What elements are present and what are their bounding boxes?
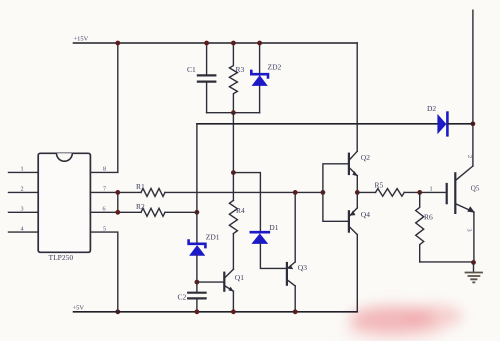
wire C1/R3/ZD2 bottom bus (207, 112, 260, 114)
wire Q2 collector drop from rail (356, 43, 358, 151)
wire pin 8 to +15V rail (90, 43, 117, 172)
wire Q3 emitter up to drive line (294, 192, 296, 262)
wire D1 to Q3 base (260, 244, 286, 269)
svg-text:+15V: +15V (74, 36, 89, 43)
diode D1 (251, 232, 269, 244)
svg-text:3: 3 (21, 206, 24, 213)
svg-text:C2: C2 (178, 293, 187, 302)
svg-text:+5V: +5V (73, 305, 85, 312)
svg-text:R1: R1 (136, 182, 145, 191)
pin 2 lead (9, 191, 39, 193)
wire pin 7 lead (90, 191, 141, 193)
wire Q2/Q4 base link (323, 164, 349, 222)
svg-text:C1: C1 (187, 65, 196, 74)
svg-text:R3: R3 (236, 65, 245, 74)
node drive line / base link (321, 190, 326, 195)
transistor Q2 (349, 151, 358, 176)
resistor R1 (141, 188, 165, 196)
wire R3 column down to R4 (232, 113, 234, 201)
capacitor C2 (188, 293, 205, 312)
wire R2 to ZD1 column (165, 211, 197, 213)
node R2 / ZD1 column (195, 210, 200, 215)
svg-text:R2: R2 (136, 202, 145, 211)
node bus / R3 column (231, 110, 236, 115)
wire Q2 emitter down (356, 176, 358, 193)
svg-text:R4: R4 (236, 206, 245, 215)
wire Q4 emitter up (356, 192, 358, 208)
svg-text:8: 8 (103, 166, 106, 173)
svg-text:Q5: Q5 (471, 185, 480, 193)
zener ZD2 (251, 43, 268, 113)
pin 1 lead (9, 171, 39, 173)
wire pin 6 lead (90, 211, 141, 213)
resistor R2 (141, 208, 165, 216)
resistor R5 (376, 189, 405, 197)
svg-text:D2: D2 (427, 104, 436, 113)
wire pin 5 to +5V bus (90, 232, 117, 312)
node R6 tap (417, 190, 422, 195)
wire Q5 emitter down (473, 212, 475, 262)
wire Q3 collector to bus (294, 286, 296, 312)
wire pin7-pin6 link (117, 192, 119, 212)
transistor Q3 (287, 262, 295, 286)
node R4 top / D1 branch (231, 170, 236, 175)
node C2 / bus (195, 309, 200, 314)
node D2 / riser (471, 121, 476, 126)
svg-text:R6: R6 (424, 213, 433, 222)
node R3 / rail (231, 41, 236, 46)
svg-text:D1: D1 (269, 223, 278, 232)
svg-text:5: 5 (103, 226, 106, 233)
svg-text:Q1: Q1 (235, 273, 244, 282)
wire D2 cathode to riser (447, 123, 473, 125)
svg-text:6: 6 (103, 206, 106, 213)
svg-text:ZD2: ZD2 (268, 63, 282, 72)
wire output to R5 (357, 191, 375, 193)
pin 4 lead (9, 231, 39, 233)
diode D2 (437, 113, 447, 136)
node pin6 link (115, 210, 120, 215)
wire R5 to IGBT gate (404, 191, 446, 193)
svg-text:Q3: Q3 (298, 263, 307, 272)
ground (465, 262, 483, 282)
resistor R3 (229, 43, 237, 113)
IC U1 TLP250 body (38, 153, 90, 252)
zener ZD1 (189, 241, 206, 256)
transistor Q4 (349, 208, 357, 235)
node C1 / rail (204, 41, 209, 46)
wire Q1 emitter to bus (232, 291, 234, 312)
svg-text:2: 2 (21, 186, 24, 193)
resistor R4 (229, 200, 237, 233)
wire +15V rail (74, 42, 358, 44)
wire R4 to Q1 collector (232, 234, 234, 269)
node emitter / R6 return (471, 260, 476, 265)
wire collector riser (472, 10, 474, 166)
svg-text:3: 3 (466, 229, 473, 232)
wire +5V bottom bus (74, 311, 358, 313)
wire Q1 base (197, 281, 224, 283)
svg-text:4: 4 (21, 226, 24, 233)
node Q3 / bus (293, 309, 298, 314)
svg-text:1: 1 (430, 186, 433, 193)
IGBT Q5 (447, 166, 475, 213)
wire R6 bottom to emitter node (420, 261, 474, 263)
pin 3 lead (9, 211, 39, 213)
svg-text:TLP250: TLP250 (49, 253, 74, 262)
svg-text:2: 2 (466, 155, 473, 158)
wire ZD1 to C2 (196, 256, 198, 293)
svg-text:7: 7 (103, 186, 106, 193)
node pin5 / bus (115, 309, 120, 314)
wire Q4 collector drop to bus (356, 235, 358, 312)
wire gate-drive line to D2 (197, 123, 437, 125)
node rail / pin8 riser (115, 41, 120, 46)
node ZD1 / Q1 base / C2 (195, 280, 200, 285)
wire R1 output to driver bases (165, 191, 323, 193)
node push-pull output (355, 190, 360, 195)
transistor Q1 (224, 269, 234, 291)
svg-text:ZD1: ZD1 (206, 233, 220, 242)
svg-text:Q2: Q2 (361, 153, 370, 162)
node Q3 / drive line (293, 190, 298, 195)
watermark pink blob (345, 305, 463, 339)
wire D1 branch (233, 173, 260, 232)
capacitor C1 (198, 43, 215, 113)
node Q1 emitter / bus (231, 309, 236, 314)
svg-text:Q4: Q4 (361, 210, 370, 219)
node ZD2 / rail (257, 41, 262, 46)
wire ZD1 column (196, 124, 198, 244)
node pin7 link (115, 190, 120, 195)
svg-text:R5: R5 (375, 181, 384, 190)
svg-text:1: 1 (21, 166, 24, 173)
resistor R6 (416, 192, 424, 262)
